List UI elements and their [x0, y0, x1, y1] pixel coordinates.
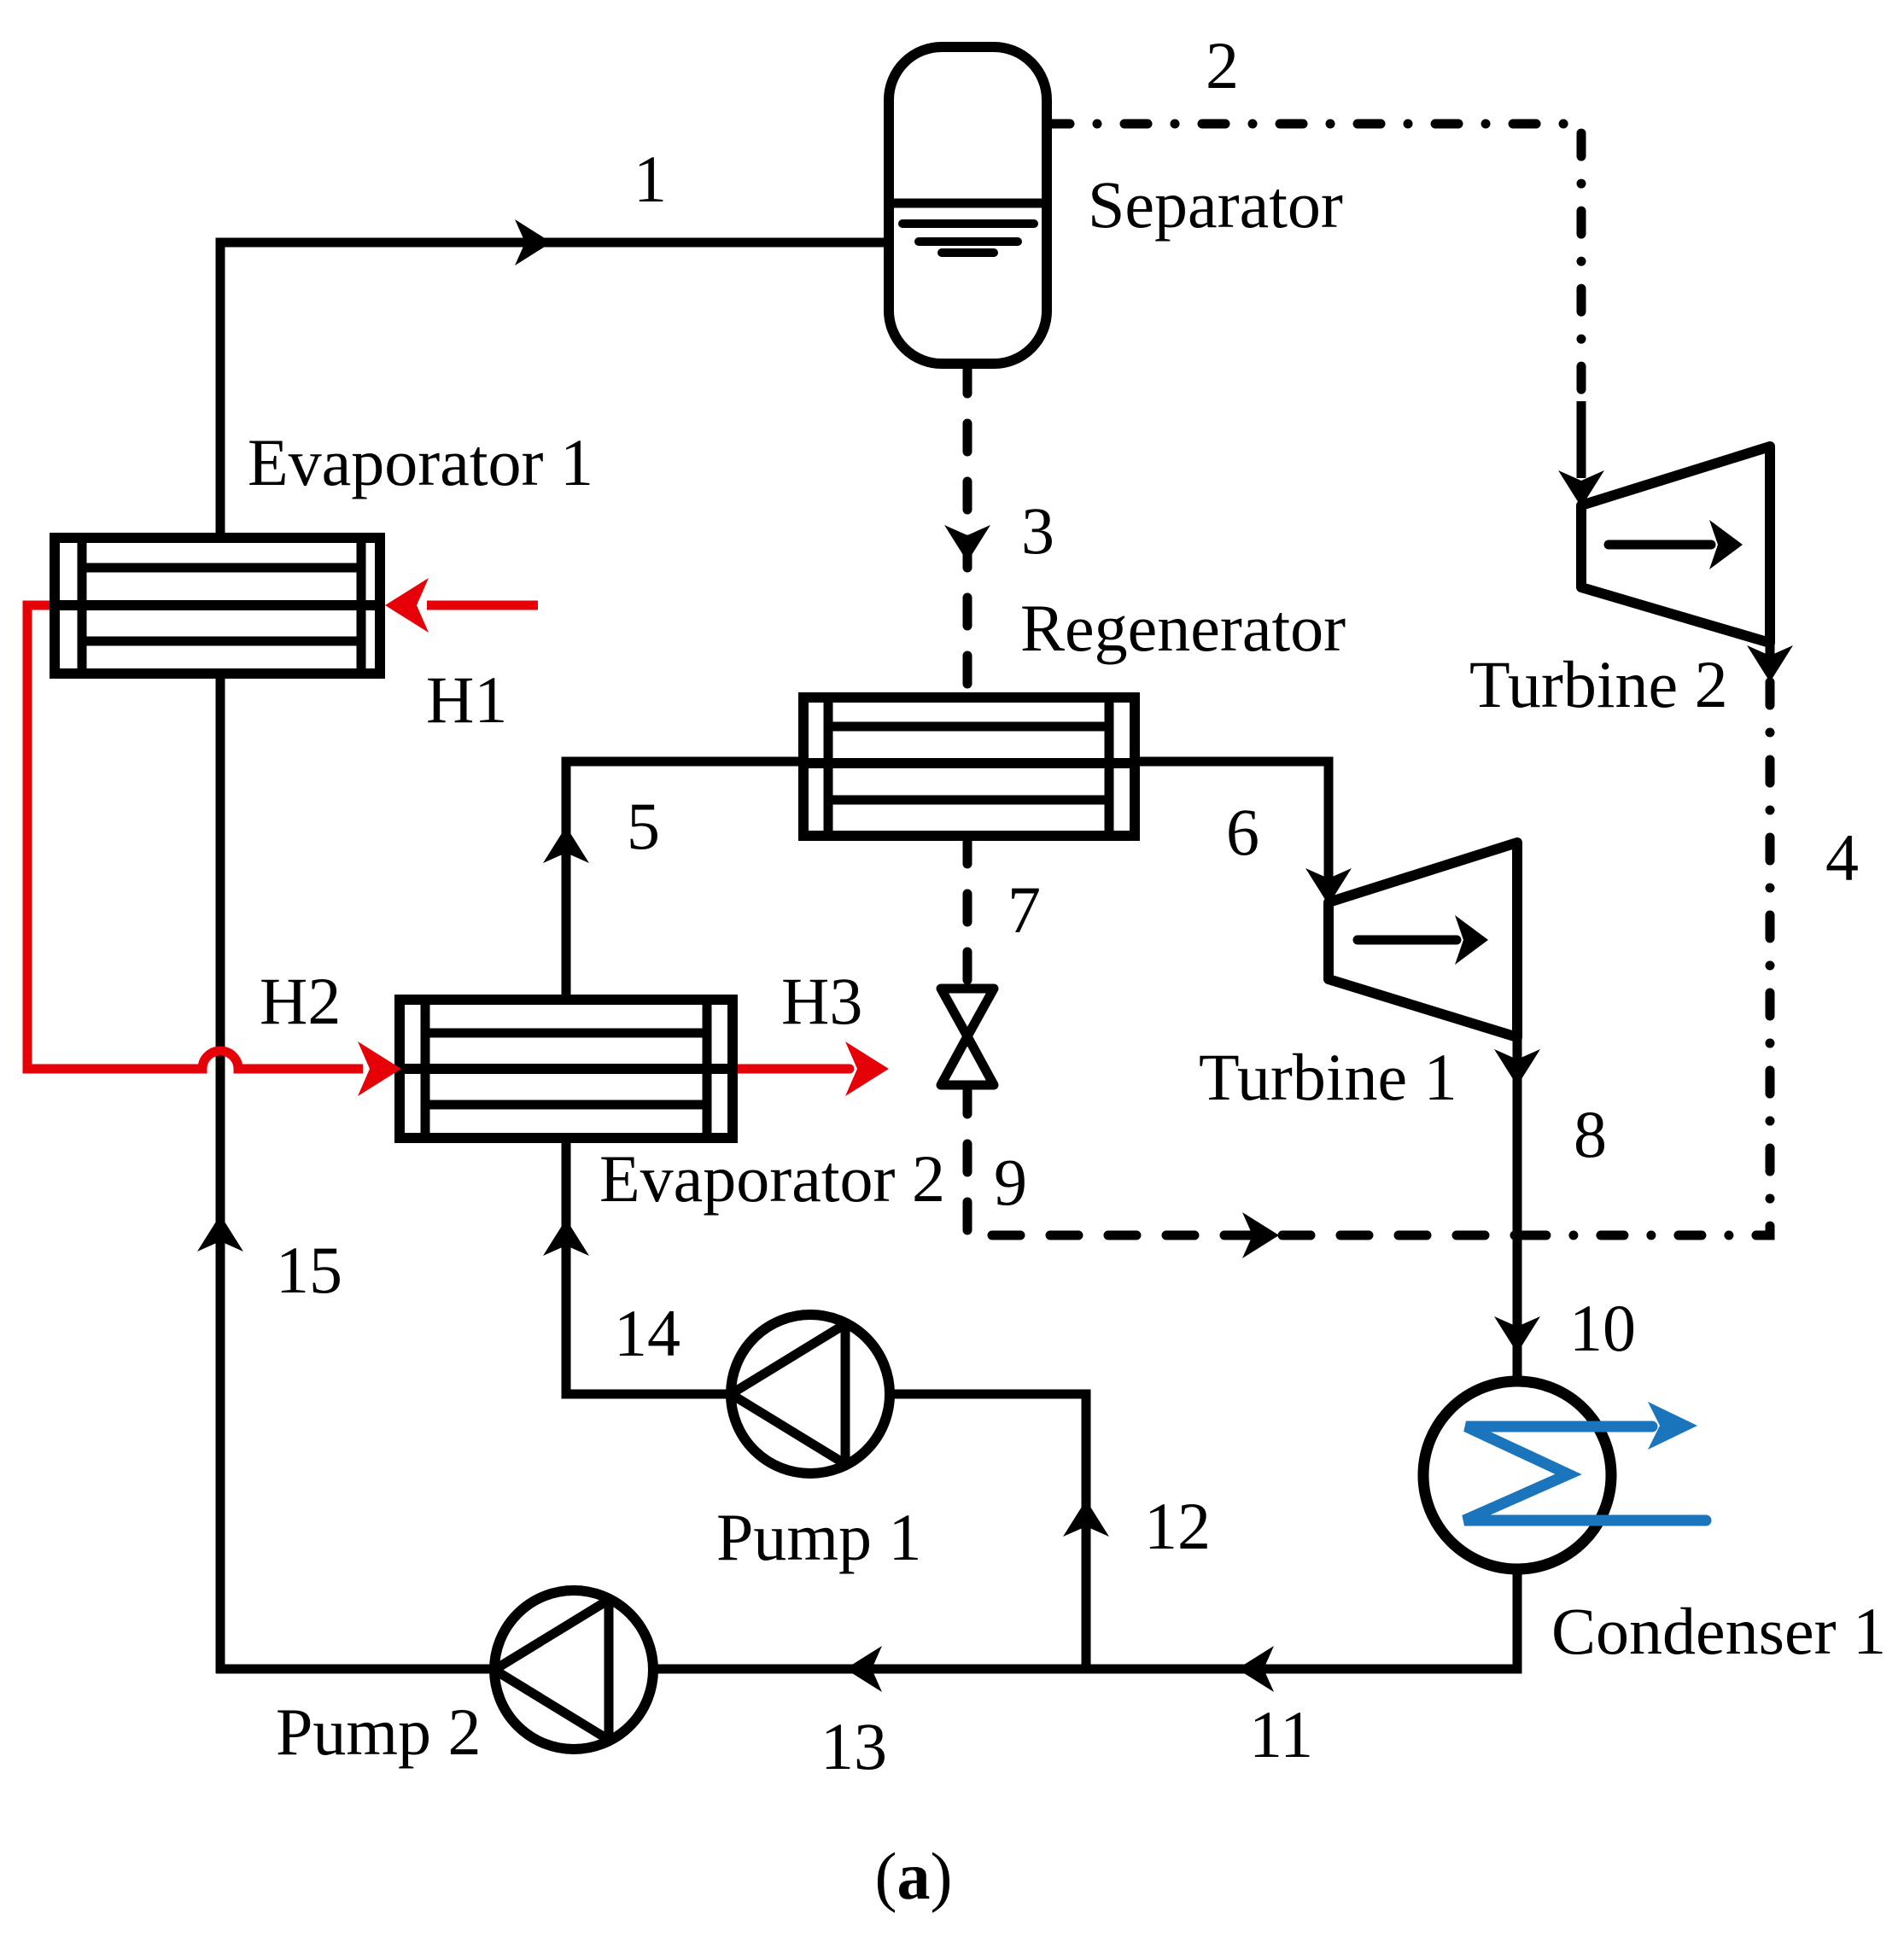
svg-text:6: 6: [1226, 795, 1259, 869]
wire stream 12 + 14 (junction up to pump 1, run to riser into evaporator 2): [566, 1138, 1086, 1669]
arrow H1 red left into evaporator 1: [385, 578, 429, 633]
svg-text:7: 7: [1007, 872, 1041, 947]
wire stream 3 (separator bottom, dashed): [963, 365, 972, 697]
wire stream 9 (valve bottom right to node at stream 8, dashed): [967, 1086, 1517, 1235]
wire H3 red outlet: [733, 1065, 850, 1074]
arrow stream 14 up: [543, 1219, 589, 1256]
svg-text:Pump 2: Pump 2: [276, 1695, 482, 1769]
svg-text:5: 5: [627, 789, 660, 863]
wire stream 4 (turbine 2 outlet to node at stream 8, dash-dot): [1517, 682, 1770, 1235]
wire stream 4 solid stub out of turbine 2: [1766, 643, 1775, 659]
svg-text:11: 11: [1249, 1697, 1313, 1771]
svg-text:Regenerator: Regenerator: [1020, 591, 1346, 665]
svg-text:3: 3: [1021, 493, 1054, 568]
svg-text:H2: H2: [260, 964, 341, 1038]
svg-text:12: 12: [1144, 1489, 1211, 1563]
arrow stream 13 left: [845, 1646, 882, 1692]
heat exchanger Evaporator 2: [400, 1000, 733, 1138]
heat exchanger Regenerator: [803, 697, 1135, 836]
wire stream 15 + stream 1 (left riser and top run to separator): [220, 242, 889, 1673]
svg-text:1: 1: [634, 142, 667, 216]
separator vessel: [889, 47, 1047, 364]
svg-text:4: 4: [1825, 820, 1859, 895]
wire stream 5 (evaporator 2 top to regenerator left): [566, 761, 803, 1000]
arrow stream 3 down: [944, 525, 990, 562]
arrow stream 8 down: [1494, 1049, 1540, 1086]
svg-text:Condenser 1: Condenser 1: [1551, 1594, 1886, 1668]
condenser cooling water zigzag (blue): [1464, 1426, 1706, 1520]
svg-text:Evaporator 2: Evaporator 2: [599, 1141, 945, 1216]
svg-text:15: 15: [276, 1233, 342, 1307]
arrow stream 2 down into turbine 2: [1558, 470, 1604, 507]
wire stream 2 solid stub into turbine 2: [1577, 401, 1586, 478]
svg-text:Turbine 1: Turbine 1: [1199, 1040, 1457, 1114]
svg-text:Separator: Separator: [1088, 167, 1343, 242]
svg-text:13: 13: [821, 1709, 887, 1783]
arrow stream 12 up: [1063, 1500, 1109, 1537]
wire stream 6 (regenerator right to turbine 1 inlet): [1135, 761, 1329, 898]
wire hot stream H1-H2 (red, evaporator1 out, down, into evaporator 2): [27, 605, 363, 1069]
arrow stream 10 down: [1494, 1316, 1540, 1353]
svg-text:H1: H1: [426, 662, 507, 737]
turbine Turbine 2: [1581, 446, 1770, 643]
arrow H2 red right into evaporator 2: [358, 1041, 401, 1096]
arrow stream 11 left: [1237, 1646, 1274, 1692]
arrow H3 red right: [845, 1041, 889, 1096]
svg-text:H3: H3: [781, 964, 862, 1038]
svg-text:2: 2: [1206, 28, 1239, 102]
heat exchanger Evaporator 1: [55, 538, 380, 674]
svg-text:8: 8: [1574, 1097, 1607, 1171]
svg-text:9: 9: [994, 1145, 1027, 1219]
valve (throttle): [941, 989, 994, 1085]
turbine 2 shaft arrow: [1609, 540, 1711, 550]
arrow stream 4 down: [1747, 645, 1793, 682]
arrow stream 15 up: [197, 1215, 243, 1251]
turbine Turbine 1: [1329, 843, 1517, 1037]
wire stream 2 (separator to turbine 2, dash-dot): [1047, 124, 1581, 401]
separator liquid level lines: [890, 203, 1046, 253]
wire stream 8/10 (turbine 1 outlet down to condenser): [1513, 1037, 1522, 1383]
svg-text:Pump 1: Pump 1: [716, 1500, 922, 1574]
pump Pump 2: [494, 1590, 653, 1749]
svg-text:Evaporator 1: Evaporator 1: [248, 425, 593, 499]
arrow stream 6 down into turbine 1: [1305, 868, 1352, 905]
svg-text:10: 10: [1569, 1291, 1636, 1365]
wire stream 11/13 (condenser bottom to pump 2 and left corner): [216, 1569, 1517, 1669]
svg-text:14: 14: [614, 1296, 680, 1370]
arrow stream 5 up: [543, 826, 589, 863]
svg-text:Turbine 2: Turbine 2: [1469, 647, 1728, 721]
arrow stream 9 right: [1242, 1212, 1279, 1258]
wire H1 red inlet tail: [427, 601, 538, 610]
pump Pump 1: [731, 1315, 890, 1473]
turbine 1 shaft arrow: [1358, 936, 1457, 945]
arrow stream 1 right: [515, 219, 552, 265]
wire stream 7 (regenerator bottom to valve, dashed): [963, 836, 972, 988]
svg-text:(a): (a): [875, 1839, 953, 1913]
condenser Condenser 1: [1423, 1381, 1611, 1569]
